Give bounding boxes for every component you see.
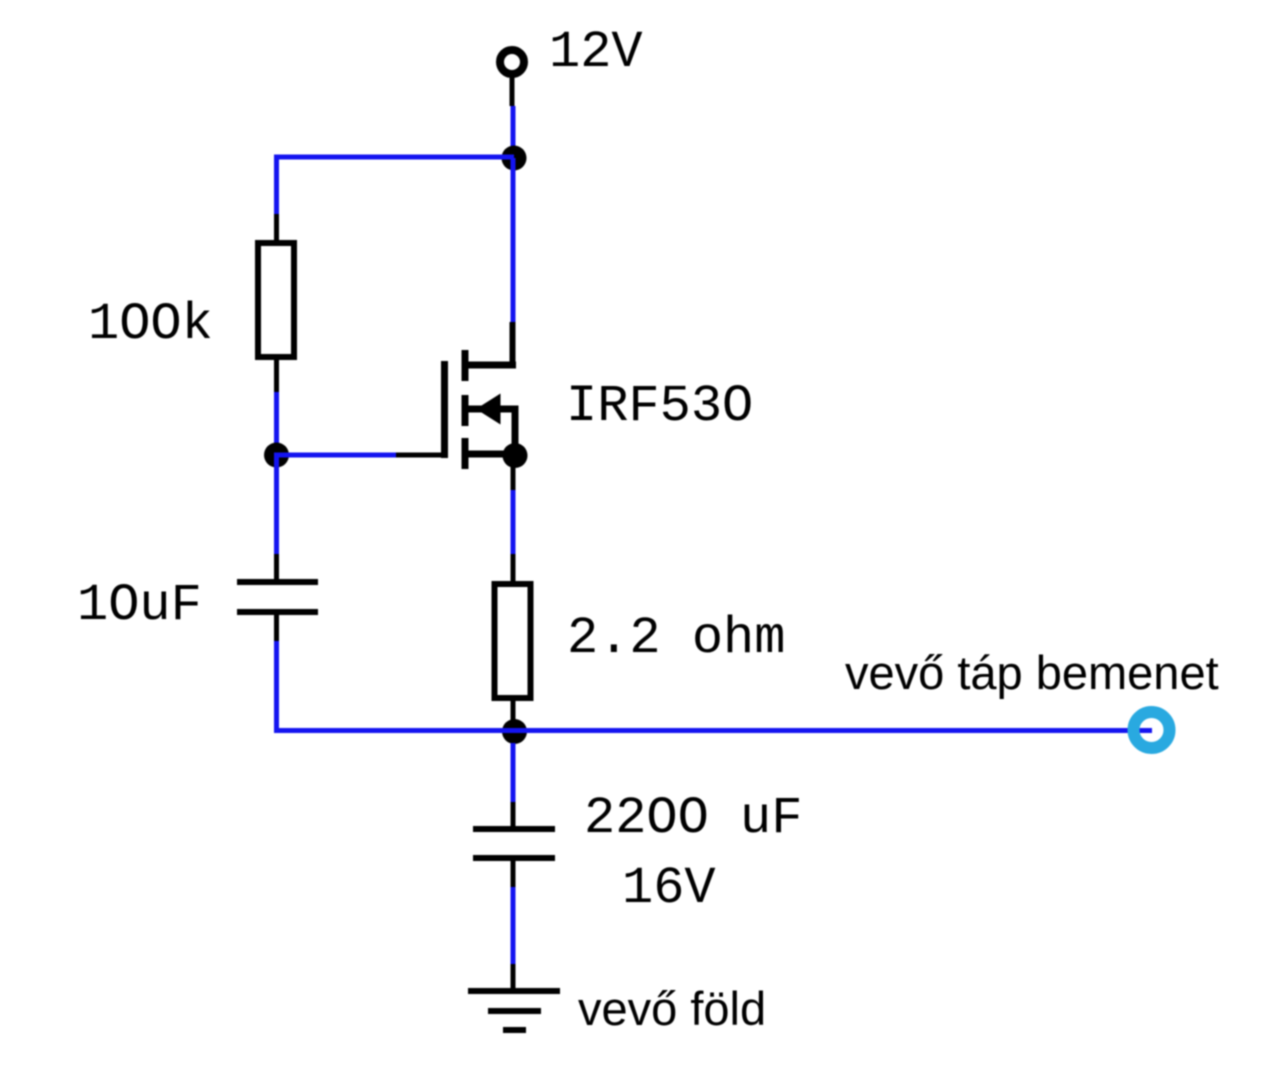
wire: blue vertical C2 to ground: [511, 887, 516, 964]
wire: black drain vertical stub: [510, 322, 516, 365]
transistor Q1 body arrow: [476, 394, 501, 425]
svg-text:22OO uF: 22OO uF: [584, 789, 802, 848]
transistor Q1 channel middle segment: [462, 395, 469, 426]
wire: blue vertical left, rail to R1 top lead: [274, 155, 279, 215]
wire: blue vertical node A to drain: [511, 158, 516, 322]
node D junction dot (source node): [503, 443, 528, 468]
node C junction dot (output node): [502, 719, 527, 744]
capacitor C2 top plate: [473, 826, 555, 832]
wire: R1 top black lead: [274, 214, 279, 243]
wire: C1 top black lead: [274, 554, 279, 585]
wire: C2 top black lead: [511, 802, 516, 829]
label 10uF: [77, 576, 202, 635]
svg-text:16V: 16V: [622, 859, 716, 918]
wire: blue horizontal bottom rail to output terminal: [274, 728, 1152, 733]
label 12V: [549, 23, 643, 82]
terminal 12V open circle: [500, 50, 524, 74]
node A junction dot (12V rail): [502, 146, 527, 171]
wire: blue vertical node C to C2: [511, 743, 516, 802]
capacitor C1 top plate: [237, 579, 318, 585]
svg-text:1OOk: 1OOk: [88, 295, 213, 354]
resistor R2 body: [495, 584, 531, 698]
transistor Q1 channel bottom segment: [462, 438, 469, 469]
wire: C2 bottom black lead: [511, 861, 516, 887]
label 2.2 ohm: [567, 609, 785, 668]
transistor Q1 body connection line: [462, 406, 519, 413]
resistor R1 body: [258, 243, 294, 357]
wire: black vertical body line to source node: [512, 410, 519, 456]
wire: R2 top black lead: [511, 554, 516, 584]
svg-text:IRF53O: IRF53O: [566, 377, 753, 436]
label 100k: [88, 295, 213, 354]
label vevő föld: [578, 982, 766, 1035]
wire: black ground lead: [511, 964, 516, 991]
wire: C1 bottom black lead: [274, 615, 279, 641]
wire: blue vertical cap C1 to bottom rail: [274, 641, 279, 733]
label vevő táp bemenet: [845, 646, 1219, 699]
wire: R2 bottom black lead: [511, 701, 516, 722]
label 2200 uF: [584, 789, 802, 848]
svg-text:2.2 ohm: 2.2 ohm: [567, 609, 785, 668]
label 16V: [622, 859, 716, 918]
wire: black gate lead horizontal: [396, 453, 444, 458]
svg-text:1OuF: 1OuF: [77, 576, 202, 635]
svg-text:12V: 12V: [549, 23, 643, 82]
svg-text:vevő föld: vevő föld: [578, 982, 766, 1035]
wire: blue vertical R1 to node B: [274, 392, 279, 458]
capacitor C1 bottom plate: [237, 609, 318, 615]
capacitor C2 bottom plate: [473, 855, 555, 861]
node B junction dot (gate node): [264, 443, 289, 468]
wire: R1 bottom black lead: [274, 360, 279, 392]
wire: blue gate wire horizontal: [274, 453, 398, 458]
wire: blue vertical from stem to node A: [511, 106, 516, 158]
svg-text:vevő táp bemenet: vevő táp bemenet: [845, 646, 1219, 699]
ground bottom bar: [503, 1027, 526, 1033]
wire: black stem below 12V terminal: [510, 75, 515, 106]
ground middle bar: [488, 1008, 541, 1014]
transistor Q1 source connection: [465, 451, 516, 458]
wire: blue vertical node B to C1: [274, 455, 279, 554]
transistor Q1 drain connection: [465, 362, 516, 369]
transistor Q1 IRF530 gate bar: [441, 361, 448, 458]
wire: blue horizontal top rail: [274, 155, 514, 160]
transistor Q1 channel top segment: [462, 350, 469, 381]
wire: black source lead down: [511, 456, 516, 490]
label IRF530: [566, 377, 753, 436]
terminal output open ring: [1134, 712, 1170, 748]
wire: blue vertical source to R2: [511, 490, 516, 554]
ground top bar: [468, 988, 560, 994]
